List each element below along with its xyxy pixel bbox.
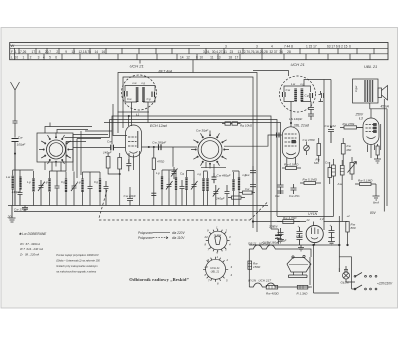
svg-text:R w 400Ω: R w 400Ω xyxy=(266,292,279,296)
svg-text:UCH 21: UCH 21 xyxy=(130,63,144,68)
tube V3 anode blobs xyxy=(374,124,377,126)
svg-text:Ł3: Ł3 xyxy=(359,117,363,121)
svg-text:≈220/110V: ≈220/110V xyxy=(377,282,393,286)
IFT1 wire frame xyxy=(125,86,155,103)
coil Lo7 xyxy=(238,177,240,190)
svg-text:W: W xyxy=(11,43,15,48)
capacitor C4 xyxy=(55,180,60,206)
vertical wire from IFT2 to AF xyxy=(330,80,332,128)
coil L5 xyxy=(65,179,67,193)
capacitor C3 trimmer xyxy=(38,180,45,206)
IFT1 cap Cw xyxy=(125,91,128,97)
capacitor Co4 xyxy=(225,185,230,206)
svg-text:W 7 014...230 mA: W 7 014...230 mA xyxy=(20,247,43,251)
svg-text:2: 2 xyxy=(225,229,228,233)
svg-text:R w 5,1MΩ: R w 5,1MΩ xyxy=(358,179,373,183)
ground bus 2 xyxy=(14,211,318,213)
speaker field pentagon xyxy=(287,258,311,273)
pilot lamp xyxy=(343,272,350,279)
svg-text:C w 4700: C w 4700 xyxy=(303,138,315,142)
svg-text:80V: 80V xyxy=(370,211,377,215)
svg-text:UY1N: UY1N xyxy=(308,212,318,216)
bus line y119 xyxy=(65,120,278,217)
capacitor Cw 100pF xyxy=(12,139,19,206)
wire x313.5 down xyxy=(314,245,340,293)
svg-text:C w 280pF: C w 280pF xyxy=(152,141,166,145)
svg-text:BF T 4nA: BF T 4nA xyxy=(159,69,173,73)
tube V1 top leads xyxy=(128,116,130,126)
IFT2 dashed circle xyxy=(280,76,316,112)
resistor Rw 5,1M out xyxy=(360,183,372,186)
coil L6 xyxy=(81,179,83,193)
long wire x324 xyxy=(323,80,325,231)
svg-text:Ł1: Ł1 xyxy=(136,113,140,117)
resistor Ru 0,5M horizontal xyxy=(286,167,297,170)
electrolytic caps C25 xyxy=(297,227,303,245)
heater row 2 bump line xyxy=(249,283,311,287)
capacitor Co2 xyxy=(191,178,198,206)
tube V2 anode blob xyxy=(292,140,296,143)
svg-text:2: 2 xyxy=(226,258,229,262)
IFT1 leads xyxy=(132,102,149,126)
V4 anode bars xyxy=(311,228,318,240)
wire top link to IFT2 xyxy=(253,71,289,76)
svg-text:Zr 08...220mA: Zr 08...220mA xyxy=(19,252,39,256)
svg-text:ECH 12ad: ECH 12ad xyxy=(150,124,168,128)
svg-text:(Skala – Uniwersala 2) na zakr: (Skala – Uniwersala 2) na zakresie 150 xyxy=(56,260,100,263)
resistor Ru vertical xyxy=(317,144,321,156)
svg-text:1 15 17: 1 15 17 xyxy=(306,45,317,49)
switch contact 2 xyxy=(352,285,362,289)
svg-text:MΩ: MΩ xyxy=(347,148,352,152)
IFT1 dashed circle xyxy=(122,75,157,110)
svg-text:UCH 21: UCH 21 xyxy=(291,62,305,67)
capacitor Cw 20pF xyxy=(127,194,133,206)
socket B pins xyxy=(203,257,228,282)
svg-text:45mA: 45mA xyxy=(381,104,389,108)
node junction xyxy=(14,153,15,154)
svg-text:14 12 8 10 11: 14 12 8 10 11 13 18 17 xyxy=(180,55,238,59)
svg-text:F 1 17,26 17 8 2: F 1 17,26 17 8 20,7 2 9 12 12,18,75 14 1… xyxy=(11,50,105,54)
switch to coil stubs xyxy=(45,162,61,172)
svg-text:16μF: 16μF xyxy=(280,239,287,243)
svg-text:C w 25n: C w 25n xyxy=(289,194,300,198)
svg-text:C w 20pF: C w 20pF xyxy=(124,194,136,198)
svg-text:L g: L g xyxy=(44,180,48,184)
svg-text:100pF: 100pF xyxy=(17,143,26,147)
svg-text:7 44 8: 7 44 8 xyxy=(284,45,293,49)
resistor Rw 470k horizontal xyxy=(344,126,357,129)
potentiometer P1 circle xyxy=(304,145,310,151)
resistor Rw 4,7k horizontal xyxy=(283,220,294,224)
capacitor under V1 xyxy=(126,159,131,171)
volume pot vertical xyxy=(332,165,336,176)
ground bus 1 xyxy=(8,205,268,207)
heater row 1 label line xyxy=(249,245,311,257)
bus rect A xyxy=(118,73,257,233)
tube V2 top lead xyxy=(290,123,292,127)
svg-text:+: + xyxy=(298,225,300,229)
strip divider 1 xyxy=(10,47,388,49)
switch S1 inner circle xyxy=(49,143,63,157)
socket A bulb xyxy=(215,236,221,245)
svg-text:16μF: 16μF xyxy=(296,234,303,238)
svg-text:24: 24 xyxy=(204,265,209,269)
svg-text:R 1,3kΩ: R 1,3kΩ xyxy=(297,292,309,296)
strip drop wires xyxy=(140,60,193,73)
svg-text:140pF: 140pF xyxy=(12,190,21,194)
IFT2 wire frame xyxy=(284,86,311,102)
switch S1 box xyxy=(37,133,73,162)
svg-text:+: + xyxy=(330,224,332,228)
dashed mechanical link xyxy=(99,190,267,220)
electrolytic cap right xyxy=(329,226,335,238)
capacitor pair left xyxy=(278,183,284,194)
svg-text:C w 30pF: C w 30pF xyxy=(196,129,208,133)
capacitor Co3 xyxy=(213,185,220,206)
svg-text:R g 10kΩ: R g 10kΩ xyxy=(240,124,253,128)
tube V3 grids xyxy=(366,125,374,132)
resistor vertical right xyxy=(328,168,332,178)
resistor Rw 1M vertical xyxy=(341,144,345,155)
capacitor Cw 170pF shunt xyxy=(22,206,28,212)
svg-text:UBL 21: UBL 21 xyxy=(364,64,377,69)
svg-text:240pF: 240pF xyxy=(215,197,225,201)
coil Lo6 xyxy=(232,179,234,191)
capacitor on bus x253 lower xyxy=(250,178,256,192)
svg-text:C g: C g xyxy=(147,97,151,101)
coil Lo1 xyxy=(161,176,163,190)
strip outer box xyxy=(10,43,388,60)
svg-text:20V: 20V xyxy=(268,224,275,228)
svg-text:25n: 25n xyxy=(274,236,280,240)
socket A pins xyxy=(206,229,230,253)
svg-text:C g: C g xyxy=(94,180,98,184)
coil L4 xyxy=(48,178,50,192)
svg-text:L g: L g xyxy=(77,180,81,184)
svg-text:C gw: C gw xyxy=(354,85,358,92)
rectifier V4 circle xyxy=(306,225,323,242)
svg-text:470Ω: 470Ω xyxy=(157,160,165,164)
svg-text:3,24, 30,4,27,41 23 13,: 3,24, 30,4,27,41 23 13,72,70,76,16,20,28… xyxy=(203,50,291,54)
resistor beside pot xyxy=(340,166,344,176)
strip cell ticks row3 xyxy=(15,54,371,60)
svg-text:C u: C u xyxy=(325,161,329,165)
coil L7 xyxy=(99,179,101,193)
svg-text:Połączone: Połączone xyxy=(138,231,153,235)
svg-text:✱ L w DOBIERANE: ✱ L w DOBIERANE xyxy=(19,232,47,236)
wire y221.5 xyxy=(253,222,348,226)
speaker small xyxy=(378,88,382,98)
svg-text:L g: L g xyxy=(142,81,146,85)
svg-text:dla 110V: dla 110V xyxy=(172,236,185,240)
svg-text:24: 24 xyxy=(306,218,310,222)
svg-text:L g: L g xyxy=(27,180,31,184)
tube V2 envelope xyxy=(282,127,299,159)
switch S1 top wires xyxy=(45,123,92,134)
volume pot with arrow xyxy=(350,163,354,175)
svg-text:R w 4,7kΩ: R w 4,7kΩ xyxy=(283,216,297,220)
strip cell ticks row2 xyxy=(15,48,375,54)
IFT1 coil Lg xyxy=(142,87,145,102)
svg-text:Połączone: Połączone xyxy=(138,236,153,240)
resistor Rw800 vertical xyxy=(346,222,349,233)
IFT1 cap Cg xyxy=(152,92,155,98)
tube V2 cathode xyxy=(286,153,296,155)
resistor Rw 5,1M horizontal xyxy=(304,182,316,185)
strip divider 2 xyxy=(10,53,388,55)
tube V3 top lead xyxy=(370,109,372,118)
switch S2 contact dots xyxy=(195,134,226,165)
svg-text:R w 470k: R w 470k xyxy=(343,122,355,126)
svg-text:W.I 67...330mA: W.I 67...330mA xyxy=(20,242,40,246)
svg-text:GŁŚM 160pF: GŁŚM 160pF xyxy=(263,240,280,245)
tube V2 grid cap line xyxy=(271,134,282,136)
cap 25n with ground xyxy=(277,228,284,243)
svg-text:2BL 21ad: 2BL 21ad xyxy=(293,123,310,127)
ground symbol main xyxy=(9,206,16,223)
osc bank top wires xyxy=(162,162,239,178)
svg-text:6mA: 6mA xyxy=(373,201,379,205)
heater row 1 left drop xyxy=(248,249,250,287)
socket A circle xyxy=(208,231,227,250)
IFT2 bottom lead xyxy=(290,102,292,124)
resistor R1 vertical xyxy=(106,157,110,169)
wire rows above coils xyxy=(66,131,112,178)
V4 leads xyxy=(314,243,316,245)
capacitor Cw 480pF xyxy=(212,173,217,183)
switch contact 1 xyxy=(346,273,362,283)
IFT2 coil Lw xyxy=(294,89,297,102)
svg-text:C w 170pF: C w 170pF xyxy=(14,207,28,211)
svg-text:dla 220V: dla 220V xyxy=(172,231,185,235)
svg-text:C g: C g xyxy=(61,180,65,184)
grid coupling cap xyxy=(111,145,114,151)
switch S1 radial ticks xyxy=(39,133,73,167)
svg-text:L g: L g xyxy=(301,82,305,86)
capacitor Cw 25n xyxy=(291,184,297,194)
IFT2 top lead xyxy=(304,80,331,87)
IFT2 cap Cg xyxy=(310,93,313,98)
tube V1 bottom leads xyxy=(129,151,140,206)
svg-text:800: 800 xyxy=(351,226,356,230)
transformer windings xyxy=(365,80,373,102)
output transformer box xyxy=(353,79,379,103)
svg-text:C g: C g xyxy=(180,172,184,176)
tube V1 envelope xyxy=(126,125,142,157)
IFT2 coil Lg xyxy=(301,89,304,102)
resistor R2 vertical xyxy=(118,158,122,170)
svg-text:GŁ5M: GŁ5M xyxy=(341,281,350,285)
tube V2 bottom leads xyxy=(287,157,296,167)
coil L2 xyxy=(19,177,21,190)
capacitor C6 xyxy=(88,181,93,206)
tube V3 left wire xyxy=(357,126,363,128)
svg-text:UBL 21: UBL 21 xyxy=(211,269,220,273)
svg-text:UY1N UCH 21T: UY1N UCH 21T xyxy=(248,279,272,283)
resistor Rg pair xyxy=(225,122,231,125)
wire y245 xyxy=(249,244,339,246)
capacitor 240pF xyxy=(180,180,185,206)
bottom resistor R1,3k xyxy=(297,285,308,289)
SECTION: tube socket diagrams xyxy=(206,229,230,253)
svg-text:UCH 21: UCH 21 xyxy=(210,266,220,270)
resistor R150 vertical xyxy=(248,261,252,269)
transformer bottom lead xyxy=(370,103,387,206)
svg-text:4: 4 xyxy=(271,45,273,49)
electrolytic cap 25V xyxy=(275,234,282,236)
tube V1 cathode xyxy=(130,152,138,154)
capacitor on bus x253 upper xyxy=(250,166,256,178)
svg-text:+z: +z xyxy=(347,214,351,218)
switch S2 inner circle xyxy=(201,141,219,159)
coil Lo5 xyxy=(206,178,208,191)
ground cap right xyxy=(328,238,335,245)
svg-text:63 17 6 8 2 15 6: 63 17 6 8 2 15 6 xyxy=(327,45,351,49)
coil Lo3 xyxy=(185,177,187,190)
IFT1 coil Lw xyxy=(136,87,139,102)
bottom resistor R400 xyxy=(266,285,278,289)
svg-text:24: 24 xyxy=(204,235,209,239)
antenna symbol xyxy=(11,82,20,120)
switch S2 outer circle xyxy=(198,138,222,162)
coil L3 xyxy=(32,178,34,192)
IFT2 bottom caps xyxy=(308,102,314,121)
bus rect B xyxy=(123,77,253,228)
switch S1 contact dots xyxy=(43,136,70,163)
capacitor Co1 xyxy=(166,178,173,206)
IFT2 gnd cap xyxy=(319,91,324,102)
wires power right xyxy=(339,257,351,289)
svg-text:L g: L g xyxy=(156,171,160,175)
svg-text:L S 140pF: L S 140pF xyxy=(289,117,302,121)
svg-text:limitach przy maksymalnie usta: limitach przy maksymalnie ustalonym xyxy=(56,265,97,268)
svg-text:Pomiar napięć przyrządem 10000: Pomiar napięć przyrządem 10000 Ω/V xyxy=(56,254,99,257)
svg-text:L g: L g xyxy=(198,172,202,176)
capacitor C7 xyxy=(104,181,109,206)
trimmer cluster mid xyxy=(171,167,178,179)
coil bank top wires xyxy=(13,170,100,186)
tube V3 envelope xyxy=(363,118,379,145)
svg-text:L 10 1 2 3: L 10 1 2 3 4 5 6 xyxy=(11,55,57,59)
svg-text:R w 0,5MΩ: R w 0,5MΩ xyxy=(284,163,299,167)
svg-text:3: 3 xyxy=(225,45,227,49)
bus line y116 xyxy=(112,116,271,222)
svg-text:GŁÓW: GŁÓW xyxy=(214,234,222,237)
bus line y122.5 xyxy=(104,123,281,184)
svg-text:na maksimum/bez sygnału z ante: na maksimum/bez sygnału z anteny xyxy=(56,271,96,274)
svg-text:Odbiornik radiowy „Beskid”: Odbiornik radiowy „Beskid” xyxy=(129,277,189,282)
grid capacitor V2 xyxy=(277,133,280,138)
coil L1 xyxy=(12,176,14,190)
capacitor C1 xyxy=(18,186,23,206)
coil Lo4 xyxy=(202,178,204,191)
resistor R3 470 vertical xyxy=(152,158,155,170)
wire plate y142 xyxy=(142,135,277,147)
tube V1 grids xyxy=(128,137,137,146)
switch S1 outer circle xyxy=(47,140,66,159)
svg-text:140pF: 140pF xyxy=(103,151,112,155)
wires V3 region xyxy=(381,124,385,212)
svg-text:C g: C g xyxy=(305,94,309,98)
svg-text:2,4: 2,4 xyxy=(319,217,324,221)
svg-text:20: 20 xyxy=(7,215,12,219)
svg-text:3: 3 xyxy=(256,45,258,49)
svg-text:MΩ: MΩ xyxy=(314,161,319,165)
tube V3 cathode xyxy=(367,137,376,139)
cathode resistor V3 xyxy=(376,146,379,155)
socket B circle xyxy=(206,259,226,279)
svg-text:A w: A w xyxy=(337,182,343,186)
svg-text:C w 0,02: C w 0,02 xyxy=(325,124,337,128)
tube V2 grids xyxy=(285,134,297,146)
strip row1 partial line xyxy=(10,44,200,46)
IFT2 cap Cw xyxy=(283,92,286,97)
resistor box B xyxy=(243,191,253,194)
coil Lo2 xyxy=(175,177,177,190)
svg-text:150Ω: 150Ω xyxy=(253,265,261,269)
switch S2 radial ticks xyxy=(191,131,229,169)
antenna small cap xyxy=(13,120,18,138)
tube V3 bottom leads xyxy=(368,145,375,159)
capacitor Cw 280pF xyxy=(159,144,162,150)
capacitor C5 trimmer xyxy=(71,181,78,206)
wire right of speaker xyxy=(383,99,385,124)
wire x339 down xyxy=(338,216,340,272)
svg-text:C w 480pF: C w 480pF xyxy=(217,174,231,178)
svg-text:R w 5,1MΩ: R w 5,1MΩ xyxy=(303,178,318,182)
junction dots xyxy=(119,173,120,174)
capacitor Cw AF xyxy=(328,130,334,144)
resistor box A xyxy=(232,196,242,199)
